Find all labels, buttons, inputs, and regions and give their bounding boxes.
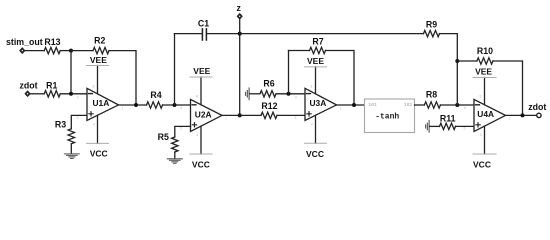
svg-text:VCC: VCC (306, 149, 324, 159)
wire U1A output (119, 104, 147, 106)
U4A VCC rail (484, 126, 486, 154)
svg-text:zdot: zdot (19, 80, 37, 90)
node tanh in (352, 103, 356, 107)
wire z vertical (239, 19, 241, 115)
svg-text:101: 101 (368, 102, 377, 108)
svg-text:1: 1 (122, 107, 124, 111)
svg-text:R1: R1 (46, 80, 57, 90)
svg-text:R7: R7 (312, 36, 323, 46)
resistor R10 (457, 60, 477, 62)
resistor R2 (93, 47, 109, 53)
tiny gray pin numbers (77, 85, 511, 138)
U1A VCC rail (97, 115, 99, 143)
ground left of R11 (426, 121, 430, 133)
port z (top) (238, 14, 242, 18)
svg-text:R9: R9 (426, 20, 437, 30)
node R7 drop (287, 92, 291, 96)
svg-text:2: 2 (295, 96, 297, 100)
op-amp U1A (87, 88, 119, 120)
svg-text:R6: R6 (263, 79, 274, 89)
svg-text:U2A: U2A (195, 110, 212, 120)
svg-text:VEE: VEE (90, 55, 107, 65)
resistor R12 (261, 112, 277, 118)
svg-text:4: 4 (196, 133, 198, 137)
node z / U2A out (238, 113, 242, 117)
wire (109, 51, 136, 105)
resistor R7 loop (288, 51, 290, 94)
node R10 tap (455, 59, 459, 63)
resistor R3 (68, 129, 74, 144)
op-amp U3A (305, 88, 337, 120)
wire (277, 114, 305, 116)
wire (174, 152, 176, 159)
U1A VEE rail (97, 66, 99, 94)
resistor R1 (44, 91, 60, 97)
svg-text:R11: R11 (440, 113, 456, 123)
svg-text:R10: R10 (477, 46, 493, 56)
U2A VCC rail (200, 126, 202, 154)
svg-text:VCC: VCC (192, 160, 210, 170)
wire U4A out (506, 114, 537, 116)
svg-text:3: 3 (77, 116, 79, 120)
svg-text:VEE: VEE (193, 66, 210, 76)
op-amp U2A (191, 99, 223, 131)
svg-text:R4: R4 (150, 90, 161, 100)
wire (70, 51, 72, 94)
svg-text:U4A: U4A (477, 109, 494, 119)
wire (60, 50, 71, 52)
resistor R5 (172, 137, 178, 152)
node z / C1 (238, 32, 242, 36)
svg-text:VEE: VEE (475, 67, 492, 77)
node stim/R2 junction (69, 49, 73, 53)
ground below R3 (64, 154, 79, 159)
svg-text:4: 4 (93, 123, 95, 127)
svg-text:1: 1 (340, 107, 342, 111)
svg-text:R13: R13 (44, 37, 60, 47)
ground left of R6 (246, 88, 250, 100)
wire U2A out (222, 114, 261, 116)
resistor R9 (240, 33, 424, 35)
svg-text:3: 3 (295, 116, 297, 120)
svg-text:zdot: zdot (528, 102, 546, 112)
wire (163, 104, 191, 106)
svg-text:R8: R8 (426, 90, 437, 100)
resistor R11 (440, 123, 456, 129)
wire (250, 93, 260, 95)
svg-text:VCC: VCC (473, 160, 491, 170)
svg-text:8: 8 (311, 85, 313, 89)
wire (276, 93, 305, 95)
op-amp U4A (474, 99, 506, 131)
svg-text:5: 5 (180, 127, 182, 131)
svg-text:8: 8 (196, 95, 198, 99)
node C1 drop (173, 103, 177, 107)
U3A VCC rail (315, 115, 317, 143)
node zdot out (521, 113, 525, 117)
svg-text:4: 4 (480, 133, 482, 137)
U4A VEE rail (484, 78, 486, 105)
wire (456, 125, 475, 127)
svg-text:VCC: VCC (90, 149, 108, 159)
wire (71, 50, 93, 52)
port zdot (left) (26, 92, 30, 96)
svg-text:7: 7 (509, 117, 511, 121)
wire (430, 125, 440, 127)
svg-text:4: 4 (311, 123, 313, 127)
svg-text:VEE: VEE (307, 56, 324, 66)
wire (70, 144, 72, 153)
U3A VEE rail (315, 67, 317, 94)
svg-text:z: z (236, 3, 241, 13)
node R2 drop (134, 103, 138, 107)
ground below R5 (167, 159, 182, 164)
resistor R4 (147, 102, 163, 108)
tanh block (365, 99, 415, 133)
svg-text:8: 8 (480, 95, 482, 99)
svg-text:R12: R12 (261, 101, 277, 111)
svg-text:stim_out: stim_out (6, 37, 43, 47)
svg-text:8: 8 (93, 85, 95, 89)
svg-text:6: 6 (464, 106, 466, 110)
port stim_out (20, 48, 24, 52)
wire U2A plus / R5 (175, 126, 191, 137)
wire (60, 93, 87, 95)
resistor R13 (44, 47, 60, 53)
svg-text:U1A: U1A (93, 98, 110, 108)
node R9/R10 drop (455, 103, 459, 107)
svg-text:R2: R2 (94, 36, 105, 46)
svg-text:R3: R3 (55, 119, 66, 129)
svg-text:C1: C1 (198, 18, 209, 28)
svg-text:2: 2 (77, 96, 79, 100)
port zdot (right) (537, 113, 541, 117)
svg-text:R5: R5 (158, 132, 169, 142)
svg-text:102: 102 (404, 102, 413, 108)
svg-text:7: 7 (225, 117, 227, 121)
wire (30, 93, 44, 95)
svg-text:6: 6 (181, 106, 183, 110)
node U1A minus (69, 92, 73, 96)
svg-text:-tanh: -tanh (375, 113, 399, 122)
U2A VEE rail (200, 77, 202, 105)
wire U1A plus (71, 115, 87, 128)
svg-text:U3A: U3A (310, 98, 327, 108)
svg-text:5: 5 (464, 127, 466, 131)
wire U3A out (337, 104, 365, 106)
resistor R6 (260, 91, 276, 97)
capacitor C1 (174, 34, 176, 105)
resistor R8 (415, 104, 425, 106)
wire (25, 50, 44, 52)
